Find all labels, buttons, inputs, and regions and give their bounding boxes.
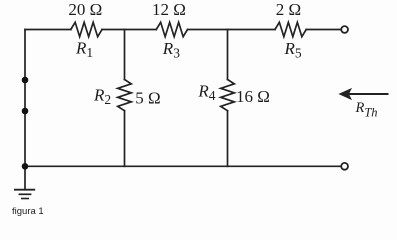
RTh arrow pointing left xyxy=(338,88,388,100)
wire bottom rail xyxy=(25,165,341,167)
svg-text:12 Ω: 12 Ω xyxy=(152,0,186,19)
wire R4 branch lower xyxy=(227,111,229,167)
wire top rail: R3 to R5 xyxy=(188,29,276,31)
svg-text:20 Ω: 20 Ω xyxy=(68,0,102,19)
wire left vertical rail xyxy=(24,30,26,167)
wire R2 branch upper xyxy=(124,30,126,80)
node junction dot bottom left corner xyxy=(22,163,29,170)
svg-text:R2: R2 xyxy=(93,85,111,107)
ground symbol xyxy=(14,190,35,199)
wire R2 branch lower xyxy=(124,111,126,167)
ground stub wire xyxy=(24,166,26,189)
resistor R4 zigzag xyxy=(221,80,235,111)
terminal a: open circle top right xyxy=(341,26,348,33)
wire R4 branch upper xyxy=(227,30,229,80)
resistor R5 zigzag xyxy=(275,22,306,36)
svg-text:2 Ω: 2 Ω xyxy=(276,0,301,19)
svg-text:5 Ω: 5 Ω xyxy=(135,88,160,107)
svg-text:figura 1: figura 1 xyxy=(12,206,44,217)
svg-text:16 Ω: 16 Ω xyxy=(236,87,270,106)
wire top rail: R1 to R3 xyxy=(102,29,156,31)
terminal b: open circle bottom right xyxy=(341,163,348,170)
node junction dot middle left xyxy=(22,108,29,115)
wire top rail: R5 to terminal a xyxy=(306,29,341,31)
resistor R3 zigzag xyxy=(156,22,187,36)
svg-text:R1: R1 xyxy=(75,39,93,61)
resistor R2 zigzag xyxy=(118,80,132,111)
svg-text:R3: R3 xyxy=(162,39,180,61)
svg-text:R4: R4 xyxy=(197,82,215,104)
svg-text:RTh: RTh xyxy=(355,100,378,120)
resistor R1 zigzag xyxy=(71,22,102,36)
wire top rail: left corner to R1 xyxy=(25,29,71,31)
node junction dot upper left xyxy=(22,77,29,84)
svg-text:R5: R5 xyxy=(284,39,302,61)
